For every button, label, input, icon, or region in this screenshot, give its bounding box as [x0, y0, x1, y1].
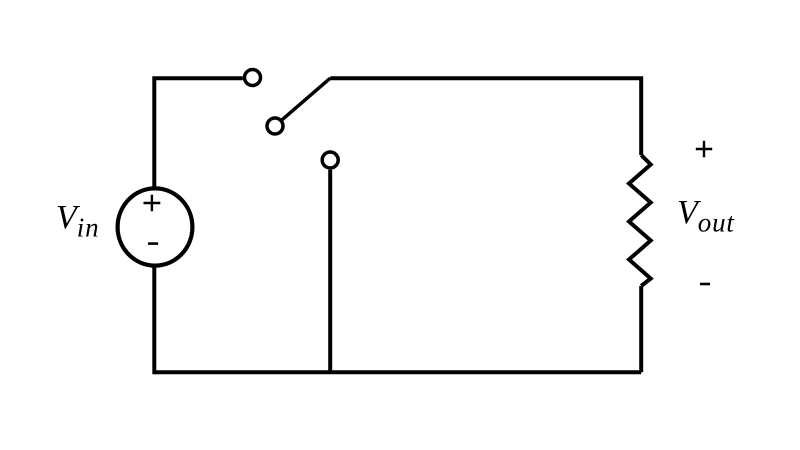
plus sign inside source	[144, 195, 161, 211]
wire: throw-2 terminal to bottom rail	[328, 170, 332, 373]
switch throw-1 terminal circle	[245, 70, 261, 86]
wire: bottom rail to Vin bottom	[152, 266, 156, 374]
svg-text:Vin: Vin	[56, 199, 99, 243]
minus sign at Vout	[700, 283, 710, 286]
resistor R (zigzag)	[629, 155, 651, 286]
voltage source Vin circle	[118, 188, 193, 265]
wire: switch to resistor top	[330, 78, 641, 155]
svg-text:Vout: Vout	[677, 194, 735, 238]
wire: resistor bottom to bottom rail	[639, 286, 643, 372]
switch pole terminal circle	[267, 118, 283, 134]
minus sign inside source	[148, 242, 158, 245]
wire: Vin top to switch throw-1 terminal	[154, 78, 243, 188]
plus sign at Vout	[696, 141, 712, 157]
wire: bottom rail	[154, 370, 641, 374]
switch throw-2 terminal circle	[322, 152, 338, 168]
switch blade (pole to top-right wire)	[281, 78, 330, 120]
